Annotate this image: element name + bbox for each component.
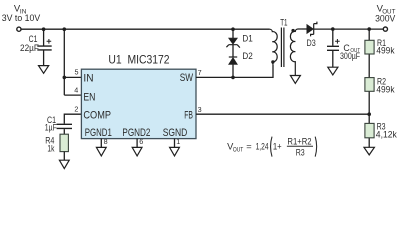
svg-text:PGND2: PGND2 [122,127,150,139]
svg-text:22µF: 22µF [20,43,39,53]
resistor R3 [365,123,374,137]
node junction COUT [331,27,335,31]
wire COMP branch [64,114,81,134]
pin number 4 [74,86,78,95]
capacitor COUT 300uF [327,39,340,50]
resistor R4 [60,134,68,151]
wire top rail VIN to T1 primary [21,28,269,30]
pin label IN [83,72,93,84]
wire C1 branch [43,29,45,65]
svg-text:SGND: SGND [163,127,188,139]
svg-text:D3: D3 [307,38,316,48]
svg-text:2: 2 [74,105,78,114]
label U1 MIC3172 [108,53,169,67]
svg-text:SW: SW [180,72,193,84]
ground R3 [364,147,374,155]
label VOUT 300V [375,3,395,23]
label C1 1uF [45,115,57,133]
pin label PGND1 [85,127,112,139]
label T1 [280,17,287,27]
svg-text:D2: D2 [242,51,252,61]
node T1 primary phase dot [271,60,274,63]
pin number 3 [198,105,202,114]
label D1 [242,33,252,43]
label C1 22uF [20,34,39,53]
svg-text:IN: IN [83,72,93,84]
pin label SW [180,72,193,84]
svg-text:1,24: 1,24 [256,141,269,151]
label output voltage formula [227,136,317,157]
transformer T1 primary winding [270,29,278,64]
ground PGND2 [132,147,142,156]
svg-text:D1: D1 [242,33,252,43]
wire D3 anode [302,28,307,30]
label R2 499k [376,77,395,95]
node junction D2 bottom [231,76,235,80]
svg-text:T1: T1 [280,17,287,27]
pin label PGND2 [122,127,150,139]
node junction R1 top [367,27,371,31]
label VIN [2,4,41,24]
ground COUT [328,67,338,75]
svg-text:OUT: OUT [233,146,244,153]
wire output rail [314,28,384,30]
pin number 1 [176,137,180,146]
IC U1 MIC3172 body [81,69,196,138]
wire FB [196,113,369,115]
svg-text:PGND1: PGND1 [85,127,112,139]
resistor R1 [365,40,374,54]
node junction IN branch [63,27,67,31]
label D3 [307,38,316,48]
label D2 [242,51,252,61]
ground C1 [39,66,49,74]
diode D1 zener [226,38,240,48]
svg-text:499k: 499k [376,85,395,95]
svg-text:8: 8 [104,137,108,146]
transformer T1 core [281,28,284,68]
wire PGND2 stub [136,139,138,148]
svg-text:3: 3 [198,105,202,114]
svg-text:6: 6 [139,137,143,146]
wire PGND1 stub [100,139,102,148]
wire R chain [368,29,370,147]
pin label FB [184,109,193,121]
node VOUT terminal [383,27,387,31]
wire D1 D2 chain [232,29,234,77]
node junction D1 top [231,27,235,31]
pin label COMP [83,109,111,121]
svg-text:=: = [246,141,251,151]
ground T1 secondary [290,76,300,84]
svg-text:499k: 499k [376,46,395,56]
ground COMP branch [59,160,69,168]
pin label SGND [163,127,188,139]
wire IN/EN branch [64,29,81,95]
svg-text:4: 4 [74,86,78,95]
svg-text:5: 5 [75,68,79,77]
diode D3 [307,22,317,37]
svg-text:COMP: COMP [83,109,111,121]
svg-text:1+: 1+ [273,141,282,151]
node junction C1 top [42,27,46,31]
capacitor C1 1uF [57,124,72,128]
svg-text:300V: 300V [375,14,395,24]
label R3 4,12k [376,121,398,139]
pin number 6 [139,137,143,146]
pin number 5 [75,68,79,77]
svg-text:EN: EN [83,91,95,103]
label COUT 300uF [340,43,361,61]
ground PGND1 [96,147,106,156]
pin number 8 [104,137,108,146]
pin label EN [83,91,95,103]
pin number 2 [74,105,78,114]
wire COUT branch [332,29,334,67]
capacitor C1 22uF [37,39,51,50]
node junction FB [367,112,371,116]
wire R4 to ground [63,152,65,161]
svg-text:1: 1 [176,137,180,146]
svg-text:R1+R2: R1+R2 [287,136,311,146]
svg-text:U1 MIC3172: U1 MIC3172 [108,53,169,67]
resistor R2 [365,78,374,92]
svg-text:FB: FB [184,109,193,121]
wire SW to T1 primary [196,65,273,78]
svg-text:1µF: 1µF [45,123,57,133]
node T1 secondary phase dot [291,29,294,32]
ground SGND [170,147,180,156]
transformer T1 secondary winding [290,29,302,76]
svg-text:300µF: 300µF [340,51,361,61]
svg-text:3V to 10V: 3V to 10V [2,13,41,23]
svg-text:4,12k: 4,12k [376,129,398,139]
pin number 7 [198,68,202,77]
svg-text:R3: R3 [296,147,305,157]
svg-text:1k: 1k [47,143,54,153]
wire SGND stub [174,139,176,148]
label R4 1k [45,136,55,154]
node VIN terminal [17,27,21,31]
diode D2 [229,57,238,64]
svg-text:7: 7 [198,68,202,77]
node junction IN pin [63,76,67,80]
label R1 499k [376,38,395,56]
